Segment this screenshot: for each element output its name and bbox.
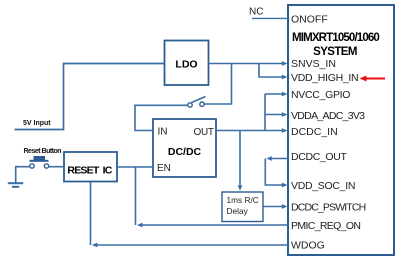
svg-text:LDO: LDO [175, 59, 197, 71]
svg-text:EN: EN [157, 163, 171, 174]
arrow into SNVS_IN [282, 61, 288, 66]
wire DCDC_OUT loopback [271, 158, 288, 160]
svg-text:Reset Button: Reset Button [24, 148, 62, 155]
svg-text:1ms R/C: 1ms R/C [227, 195, 259, 205]
reset button right contact [44, 164, 48, 168]
block 1ms R/C Delay [222, 192, 263, 222]
arrow into VDDA_ADC_3V3 [282, 112, 288, 117]
svg-text:WDOG: WDOG [291, 240, 325, 252]
switch S1 left contact [188, 103, 192, 107]
svg-text:MIMXRT1050/1060: MIMXRT1050/1060 [292, 32, 379, 44]
svg-text:DC/DC: DC/DC [168, 146, 202, 158]
wire RESET IC to EN [117, 166, 153, 168]
svg-text:OUT: OUT [194, 127, 214, 138]
wire button to ground [16, 167, 30, 183]
ground [8, 183, 23, 187]
arrow into delay block [238, 185, 243, 191]
switch S1 lever [192, 97, 206, 103]
wire NC to ONOFF [252, 17, 288, 19]
wire PMIC_REQ_ON [142, 224, 288, 226]
arrow into VDD_HIGH_IN [282, 75, 288, 80]
wire to VDDA_ADC_3V3 [265, 114, 282, 116]
wire to NVCC_GPIO [265, 93, 282, 95]
block U1 MIMXRT1050/1060 SYSTEM [288, 5, 394, 255]
svg-text:IN: IN [158, 127, 168, 138]
svg-text:NVCC_GPIO: NVCC_GPIO [291, 89, 350, 101]
wire junction down to PMIC_REQ_ON [135, 167, 137, 225]
svg-text:SYSTEM: SYSTEM [313, 46, 357, 58]
svg-text:NC: NC [249, 7, 263, 18]
wire 5V input to LDO [15, 64, 165, 130]
arrow PMIC_REQ_ON to junction [137, 223, 143, 228]
wire LDO node down to switch [205, 64, 232, 105]
red arrow at VDD_HIGH_IN [360, 76, 386, 82]
svg-text:DCDC_IN: DCDC_IN [291, 126, 338, 138]
wire delay to DCDC_PSWITCH [263, 206, 282, 208]
wire switch to DC/DC IN [135, 105, 188, 130]
block RESET IC [64, 152, 117, 182]
svg-text:5V Input: 5V Input [23, 120, 51, 127]
wire button to RESET IC [49, 166, 64, 168]
reset button cap [34, 156, 46, 160]
block DC/DC [153, 119, 216, 177]
reset button left contact [30, 164, 34, 168]
wire WDOG [97, 244, 288, 246]
wire down to delay block [239, 131, 241, 186]
svg-text:ONOFF: ONOFF [291, 14, 328, 26]
arrow into DCDC_PSWITCH [282, 204, 288, 209]
svg-text:SNVS_IN: SNVS_IN [291, 58, 336, 70]
svg-text:PMIC_REQ_ON: PMIC_REQ_ON [291, 220, 360, 232]
svg-text:DCDC_OUT: DCDC_OUT [291, 151, 347, 163]
svg-text:VDDA_ADC_3V3: VDDA_ADC_3V3 [291, 110, 365, 122]
wire LDO out to SNVS_IN [209, 63, 283, 65]
svg-text:VDD_SOC_IN: VDD_SOC_IN [291, 180, 355, 192]
wire branch to VDD_HIGH_IN [259, 64, 282, 78]
svg-text:RESET IC: RESET IC [67, 164, 112, 176]
switch S1 right contact [200, 102, 204, 106]
arrow into DCDC_IN [282, 128, 288, 133]
svg-text:VDD_HIGH_IN: VDD_HIGH_IN [291, 72, 358, 84]
wire bus up to NVCC/VDDA [264, 94, 266, 131]
svg-text:Delay: Delay [227, 206, 249, 216]
arrow out of DCDC_OUT [266, 156, 272, 161]
arrow WDOG to reset ic [92, 243, 98, 248]
wire loop vertical [265, 159, 282, 186]
wire up into RESET IC bottom [90, 182, 92, 246]
arrow into VDD_SOC_IN [282, 183, 288, 188]
svg-text:DCDC_PSWITCH: DCDC_PSWITCH [291, 202, 366, 214]
wire DC/DC OUT to DCDC_IN [216, 130, 282, 132]
block LDO [165, 41, 209, 86]
arrow into NVCC_GPIO [282, 92, 288, 97]
